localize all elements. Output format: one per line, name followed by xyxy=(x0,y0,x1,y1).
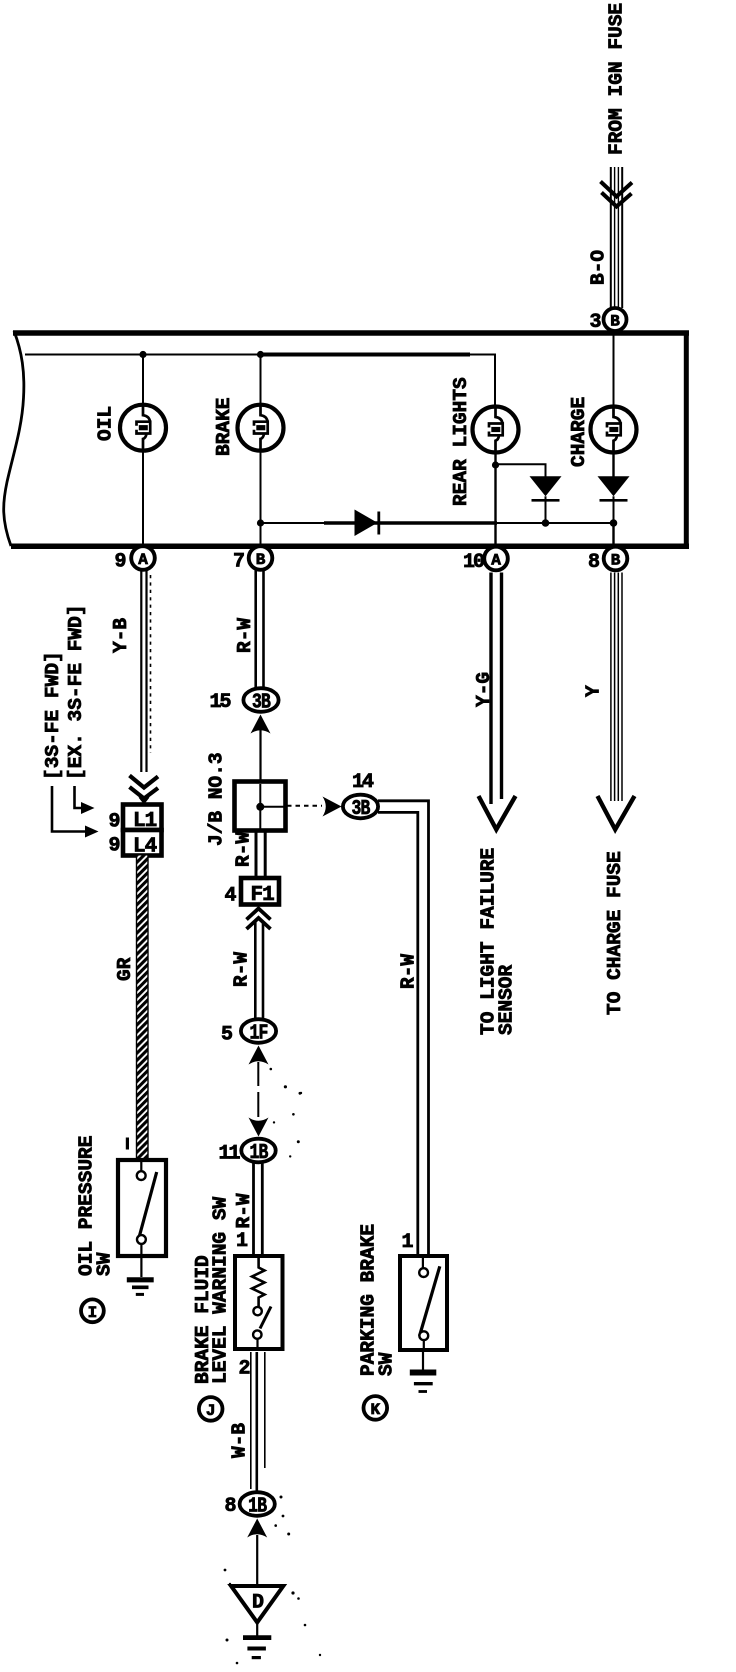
svg-text:15: 15 xyxy=(209,691,230,714)
svg-text:R-W: R-W xyxy=(234,618,256,653)
junction on BRAKE column at diode line xyxy=(257,519,264,526)
arrow double chevron down on B-O wire xyxy=(601,182,633,207)
svg-text:SW: SW xyxy=(376,1352,398,1376)
oil pressure switch box xyxy=(118,1160,166,1256)
svg-text:3B: 3B xyxy=(351,796,370,821)
svg-text:F1: F1 xyxy=(251,884,275,907)
svg-text:B: B xyxy=(256,551,266,569)
connector 10 (A) on meter bottom xyxy=(484,547,508,571)
wire: BRAKE lamp down to connector 7B xyxy=(260,451,262,546)
wire: horizontal diode line from BRAKE junction xyxy=(261,522,614,524)
connector 8 (1B) xyxy=(240,1492,275,1518)
lamp REAR LIGHTS xyxy=(473,407,519,453)
svg-text:W-B: W-B xyxy=(229,1423,251,1458)
wire: OIL lamp down to connector 9A xyxy=(142,451,144,546)
svg-text:R-W: R-W xyxy=(398,954,420,989)
brake fluid switch contacts and lever xyxy=(253,1307,271,1350)
svg-text:9: 9 xyxy=(108,811,120,834)
arrow chevron to charge fuse xyxy=(598,796,635,830)
wire R-W: F1 down to connector 5 1F (double line) xyxy=(255,921,263,1020)
wire: connector 8 to ground point D xyxy=(256,1535,258,1584)
ground point D triangle xyxy=(231,1586,283,1622)
svg-text:R-W: R-W xyxy=(233,1193,255,1228)
svg-text:8: 8 xyxy=(588,551,600,574)
arrow right into connector 14 xyxy=(323,797,342,817)
svg-text:REAR LIGHTS: REAR LIGHTS xyxy=(450,377,472,506)
connector 15 (3B) xyxy=(243,688,278,714)
junction on bus at BRAKE column xyxy=(257,351,264,358)
wire: branch to diode D1 xyxy=(496,464,546,476)
svg-text:SENSOR: SENSOR xyxy=(496,964,518,1035)
svg-text:Y: Y xyxy=(583,685,605,697)
lamp OIL xyxy=(120,405,166,451)
svg-text:I: I xyxy=(88,1304,98,1322)
svg-text:GR: GR xyxy=(114,957,136,981)
svg-text:11: 11 xyxy=(218,1143,240,1166)
svg-text:10: 10 xyxy=(463,551,484,574)
wire B-O from ign fuse (striped) xyxy=(611,167,622,308)
parking brake switch contacts and lever xyxy=(419,1258,440,1352)
detail marker I xyxy=(81,1299,104,1322)
wire Y-B: 9A down to L1/L4 (double line) xyxy=(141,571,146,773)
connector 7 (B) on meter bottom xyxy=(249,546,273,570)
ground at oil pressure switch xyxy=(127,1258,154,1294)
diode D1 (rear lights branch) xyxy=(530,476,562,523)
svg-text:1: 1 xyxy=(236,1230,248,1253)
junction below REAR LIGHTS lamp xyxy=(492,461,499,468)
diode D3 (series diode pointing right) xyxy=(355,510,379,537)
svg-text:SW: SW xyxy=(94,1252,116,1276)
svg-text:FROM IGN FUSE: FROM IGN FUSE xyxy=(606,3,628,155)
svg-text:B: B xyxy=(611,552,621,570)
svg-text:BRAKE: BRAKE xyxy=(213,397,235,456)
arrow chevron to light failure sensor xyxy=(479,796,516,830)
svg-text:[EX. 3S-FE FWD]: [EX. 3S-FE FWD] xyxy=(65,604,87,780)
arrow up into connector 15 xyxy=(251,715,271,734)
svg-text:CHARGE: CHARGE xyxy=(568,397,590,467)
ground symbol at D xyxy=(243,1622,271,1658)
wire: 10A down to light failure sensor (double line) xyxy=(491,573,502,805)
oil pressure switch contacts and lever xyxy=(137,1162,157,1258)
svg-text:1B: 1B xyxy=(249,1140,268,1165)
parking brake switch box xyxy=(400,1256,447,1350)
connector 9 (A) on meter bottom xyxy=(131,546,155,570)
junction on bus at OIL column xyxy=(139,351,146,358)
wire R-W: 7B down to junction connector 15 (double line) xyxy=(256,571,264,689)
junction at D1 anode line xyxy=(542,519,550,527)
detail marker J xyxy=(199,1397,223,1421)
connector 14 (3B) xyxy=(343,795,378,821)
wire: CHARGE lamp down to diode D2 xyxy=(612,453,614,477)
connector 8 (B) on meter bottom xyxy=(604,547,628,571)
wire: bus down to OIL lamp xyxy=(142,355,144,405)
junction block J/B NO.3 box xyxy=(235,782,286,831)
svg-text:B: B xyxy=(610,313,620,331)
connector L4 xyxy=(123,830,162,859)
ground at parking brake switch xyxy=(410,1352,437,1392)
wire R-W: J/B No.3 down to connector 4 F1 (double line) xyxy=(256,831,265,877)
brake fluid level warning switch box xyxy=(235,1256,283,1349)
connector 11 (1B) xyxy=(241,1139,275,1165)
scan noise specks xyxy=(224,1068,322,1665)
svg-text:2: 2 xyxy=(238,1358,250,1381)
diode D2 (charge branch) xyxy=(598,476,630,523)
svg-text:J: J xyxy=(206,1402,216,1420)
callout line for 3S-FE FWD xyxy=(52,786,99,838)
callout line for EX. 3S-FE FWD xyxy=(75,786,95,814)
svg-text:D: D xyxy=(252,1592,264,1615)
svg-text:K: K xyxy=(370,1401,380,1419)
combination meter box bottom edge xyxy=(11,544,689,550)
connector 3 (B) on meter top xyxy=(604,308,627,331)
svg-text:14: 14 xyxy=(352,771,374,794)
connector L1 xyxy=(123,805,162,834)
svg-text:J/B NO.3: J/B NO.3 xyxy=(206,752,228,846)
wire: bus corner down to REAR LIGHTS lamp xyxy=(494,355,496,407)
wire: connector 15 to J/B No.3 xyxy=(259,730,261,781)
wire: connector 3B down to CHARGE lamp xyxy=(613,333,615,407)
svg-text:A: A xyxy=(491,552,501,570)
wire W-B: brake fluid switch down to connector 8 1B xyxy=(251,1352,265,1492)
lamp BRAKE xyxy=(238,405,284,451)
svg-text:8: 8 xyxy=(224,1495,236,1518)
arrow up into connector 5 xyxy=(249,1046,269,1065)
svg-text:7: 7 xyxy=(233,551,245,574)
svg-text:1: 1 xyxy=(401,1231,413,1254)
wire: REAR LIGHTS lamp down to connector 10A xyxy=(494,453,496,546)
wire GR: hatched wire from L4 to oil pressure switch xyxy=(137,856,149,1159)
arrow down into connector 11 xyxy=(249,1118,269,1137)
svg-text:3: 3 xyxy=(589,311,601,334)
svg-text:9: 9 xyxy=(108,835,120,858)
connector 4 (F1) xyxy=(241,878,279,907)
svg-text:R-W: R-W xyxy=(231,952,253,987)
wire: bus down to BRAKE lamp xyxy=(260,355,262,405)
svg-text:LEVEL WARNING SW: LEVEL WARNING SW xyxy=(210,1196,232,1384)
lamp CHARGE xyxy=(591,407,637,453)
svg-text:A: A xyxy=(138,551,148,569)
svg-text:[3S-FE FWD]: [3S-FE FWD] xyxy=(42,651,64,780)
resistor inside brake fluid switch xyxy=(252,1258,265,1307)
combination meter box top edge xyxy=(13,330,689,336)
svg-text:R-W: R-W xyxy=(233,832,255,867)
connector 5 (1F) xyxy=(241,1019,276,1045)
svg-text:5: 5 xyxy=(221,1024,233,1047)
svg-text:L4: L4 xyxy=(133,836,157,859)
minus mark at oil pressure switch xyxy=(126,1138,129,1150)
wire Y: 8B down to charge fuse (striped) xyxy=(611,573,622,802)
svg-text:OIL: OIL xyxy=(95,406,117,441)
wire: dashed branch from J/B to connector 14 xyxy=(287,805,322,807)
wire R-W: connector 14 to parking brake switch (double line, corner) xyxy=(378,801,429,1254)
arrow double chevron up below F1 xyxy=(247,909,271,930)
svg-text:4: 4 xyxy=(224,885,236,908)
wire R-W: connector 11 down to brake fluid switch (double line) xyxy=(254,1163,263,1254)
svg-text:Y-G: Y-G xyxy=(473,672,495,707)
combination meter box right edge xyxy=(684,331,689,549)
svg-text:TO CHARGE FUSE: TO CHARGE FUSE xyxy=(604,851,626,1015)
junction at CHARGE column on diode line xyxy=(610,519,618,527)
arrow up into connector 8 xyxy=(247,1519,267,1538)
svg-text:1F: 1F xyxy=(249,1021,268,1046)
svg-text:9: 9 xyxy=(114,551,126,574)
detail marker K xyxy=(364,1396,388,1420)
wire: CHARGE column down to connector 8B xyxy=(612,523,614,546)
arrow double chevron down into L1 xyxy=(130,776,159,805)
wire: bus line inside meter xyxy=(25,354,263,356)
svg-text:1B: 1B xyxy=(248,1494,267,1519)
wire: dotted alternate line beside Y-B xyxy=(150,575,152,753)
combination meter box torn left edge xyxy=(4,331,24,546)
svg-text:3B: 3B xyxy=(252,690,271,715)
wire: connector 5 to connector 11 xyxy=(257,1062,259,1086)
svg-text:Y-B: Y-B xyxy=(110,618,132,653)
svg-text:B-O: B-O xyxy=(588,250,610,285)
